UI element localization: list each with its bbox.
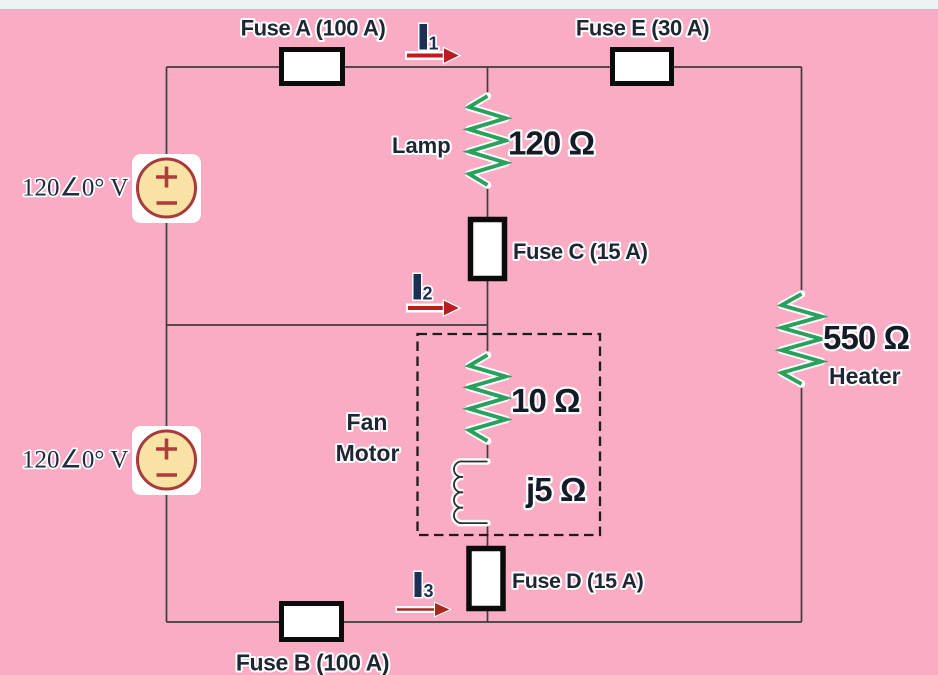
- label: Heater: [829, 363, 901, 389]
- svg-text:Fuse C (15 A): Fuse C (15 A): [513, 239, 648, 264]
- wire: Fuse D to bottom bus: [487, 611, 489, 622]
- dashed box: fan motor outline: [418, 334, 601, 535]
- svg-text:120∠0° V: 120∠0° V: [22, 447, 128, 474]
- resistor: fan motor 10 ohm (green zigzag): [469, 355, 506, 441]
- svg-text:550 Ω: 550 Ω: [823, 319, 910, 356]
- fuse A body: [282, 50, 343, 84]
- wire: right vertical bus upper segment (to heater): [801, 67, 803, 294]
- label: source V1 120 angle 0 V: [22, 175, 128, 202]
- svg-text:Lamp: Lamp: [392, 133, 451, 158]
- current arrow I2 (red): [406, 301, 459, 316]
- value: 120 ohm: [508, 125, 595, 162]
- svg-text:3: 3: [424, 581, 434, 601]
- wire: lamp to Fuse C: [487, 185, 489, 217]
- wire: Fuse C to 10 ohm resistor: [487, 281, 489, 355]
- label: source V2 120 angle 0 V: [22, 447, 128, 474]
- svg-text:Motor: Motor: [336, 440, 400, 466]
- wire: 10 ohm resistor to inductor: [487, 441, 489, 462]
- svg-text:120 Ω: 120 Ω: [508, 125, 595, 162]
- fuse E body: [613, 50, 672, 84]
- current arrow I3 (red): [396, 603, 450, 616]
- wire: middle horizontal bus (node between sources to fan motor branch): [167, 324, 488, 326]
- label: Fuse A (100 A): [241, 16, 386, 41]
- svg-text:120∠0° V: 120∠0° V: [22, 175, 128, 202]
- label: Lamp: [392, 133, 451, 158]
- value: 10 ohm: [511, 382, 580, 419]
- inductor: fan motor j5 ohm coil: [454, 461, 488, 523]
- wire: left vertical bus: [166, 67, 168, 622]
- label: Motor: [336, 440, 400, 466]
- svg-text:Fuse B (100 A): Fuse B (100 A): [236, 650, 389, 675]
- value: 550 ohm: [823, 319, 910, 356]
- svg-text:j5 Ω: j5 Ω: [525, 471, 586, 508]
- current label I1: [420, 24, 439, 54]
- label: Fuse B (100 A): [236, 650, 389, 675]
- label: Fan: [347, 409, 388, 435]
- wire: middle branch stub from top bus to lamp: [487, 67, 489, 96]
- voltage source V2 (circle with plus/minus): [132, 426, 201, 495]
- svg-text:2: 2: [423, 284, 433, 304]
- label: Fuse D (15 A): [512, 569, 644, 593]
- wire: bottom bus: [167, 621, 802, 623]
- current arrow I1 (red): [405, 48, 459, 63]
- voltage source V1 (circle with plus/minus): [132, 154, 201, 223]
- current label I3: [415, 572, 434, 601]
- svg-text:Fuse D (15 A): Fuse D (15 A): [512, 569, 644, 593]
- svg-text:Fan: Fan: [347, 409, 388, 435]
- svg-text:Heater: Heater: [829, 363, 901, 389]
- value: j5 ohm: [525, 471, 586, 508]
- resistor: Lamp 120 ohm (green zigzag): [469, 96, 506, 185]
- wire: right vertical bus lower segment (from heater): [801, 384, 803, 622]
- label: Fuse E (30 A): [576, 16, 709, 41]
- fuse B body: [282, 604, 342, 640]
- svg-text:1: 1: [429, 34, 439, 54]
- label: Fuse C (15 A): [513, 239, 648, 264]
- wire: inductor to Fuse D: [487, 523, 489, 546]
- fuse D body: [469, 549, 503, 609]
- svg-text:Fuse A (100 A): Fuse A (100 A): [241, 16, 386, 41]
- resistor: Heater 550 ohm (green zigzag): [782, 294, 822, 384]
- svg-text:Fuse E (30 A): Fuse E (30 A): [576, 16, 709, 41]
- current label I2: [414, 274, 433, 304]
- fuse C body: [471, 220, 505, 279]
- svg-text:10 Ω: 10 Ω: [511, 382, 580, 419]
- wire: top bus from left source branch to right heater branch: [167, 66, 802, 68]
